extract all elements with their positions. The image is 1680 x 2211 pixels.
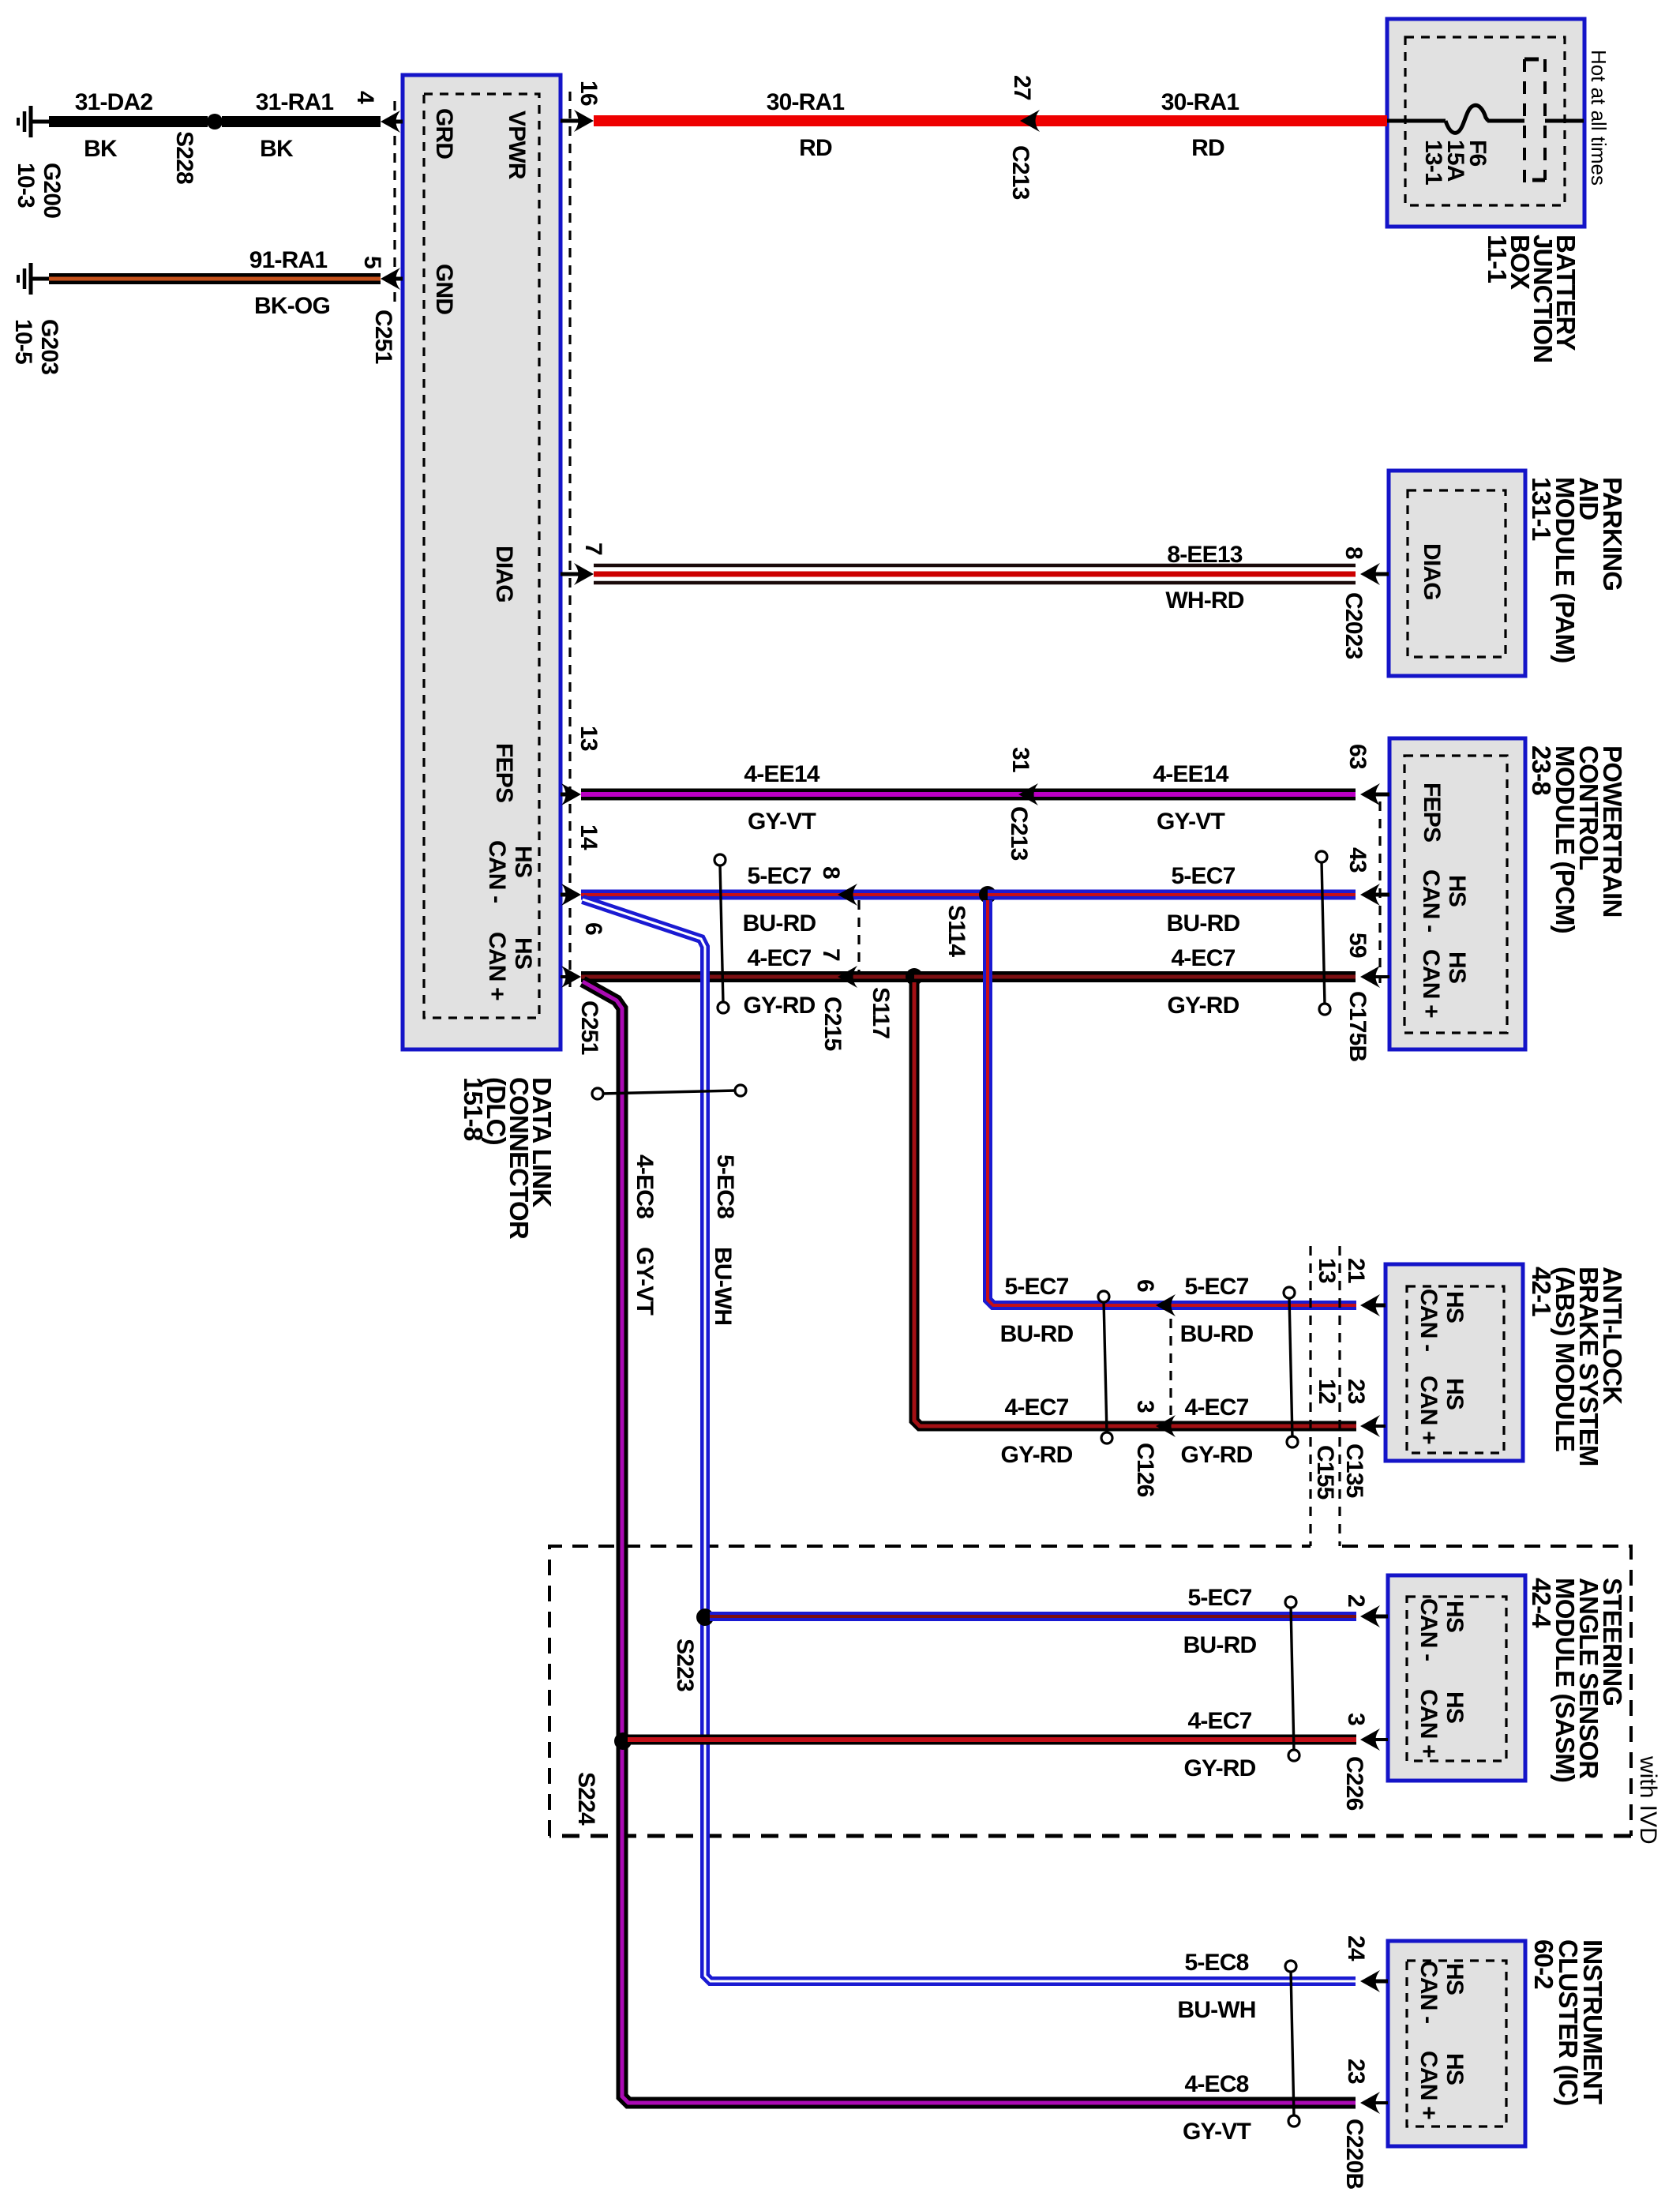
pin 4 arrow at DLC GRD	[381, 111, 403, 133]
svg-text:7: 7	[580, 542, 606, 555]
wire color label BU-WH (vertical)	[710, 1247, 736, 1325]
wire color label BK	[260, 136, 294, 162]
wire color label BU-RD (SASM)	[1183, 1632, 1257, 1658]
connector DLC (Data Link Connector) box	[403, 75, 561, 1049]
DLC HS CAN+ terminal label	[484, 932, 536, 1000]
wire 5-EC7 BU-RD (S223 to SASM pin 2)	[710, 1612, 1356, 1621]
SASM HS CAN+ terminal label	[1416, 1689, 1468, 1758]
wire label 30-RA1	[1161, 89, 1239, 115]
wire label 5-EC8 (IC)	[1184, 1950, 1248, 1976]
svg-text:CAN +: CAN +	[484, 932, 510, 1000]
svg-text:3: 3	[1132, 1400, 1158, 1413]
svg-text:GY-RD: GY-RD	[1167, 993, 1239, 1019]
wire 5-EC7 BU-RD (S114 to PCM pin 43)	[988, 890, 1356, 900]
wire color label BK-OG	[254, 293, 330, 319]
pin 31 label	[1007, 747, 1033, 772]
svg-text:BU-RD: BU-RD	[1167, 910, 1240, 937]
IC HS CAN- terminal label	[1416, 1961, 1468, 2023]
svg-text:BU-RD: BU-RD	[1000, 1321, 1074, 1347]
wire 4-EC7 GY-RD (C215 to splice S117)	[838, 971, 914, 982]
pin 8 arrow at PAM DIAG	[1360, 563, 1389, 585]
wire label 4-EC7	[1171, 945, 1235, 971]
svg-text:GY-RD: GY-RD	[1000, 1442, 1072, 1468]
pin 7 label	[580, 542, 606, 555]
pin 63 label	[1344, 744, 1371, 769]
svg-text:6: 6	[1132, 1279, 1158, 1292]
wire label 4-EC7 (SASM)	[1187, 1708, 1251, 1734]
svg-text:HS: HS	[510, 846, 536, 877]
wire color label GY-RD (left of C126)	[1000, 1442, 1072, 1468]
connector C135 dashed line	[1338, 1246, 1341, 1546]
svg-text:C251: C251	[370, 310, 396, 364]
svg-text:31: 31	[1007, 747, 1033, 772]
svg-text:16: 16	[576, 81, 602, 106]
wire label 4-EC8 (vertical)	[632, 1154, 658, 1218]
wire 8-EE13 WH-RD (DLC pin 7 to PAM pin 8)	[594, 565, 1356, 583]
wire 5-EC7 BU-RD (S114 down and to C126 pin 6)	[988, 900, 1156, 1305]
svg-text:91-RA1: 91-RA1	[249, 247, 328, 273]
pin 24 label	[1343, 1935, 1369, 1961]
svg-text:C226: C226	[1341, 1756, 1367, 1811]
wire color label WH-RD	[1165, 587, 1243, 614]
svg-text:CAN -: CAN -	[1418, 869, 1444, 932]
pin 13 label at C155	[1314, 1258, 1340, 1283]
splice S224 label	[573, 1772, 599, 1826]
DLC VPWR terminal label	[504, 111, 530, 180]
svg-text:C2023: C2023	[1341, 592, 1367, 659]
svg-text:BU-WH: BU-WH	[710, 1247, 736, 1325]
svg-text:C135: C135	[1341, 1443, 1367, 1498]
svg-text:with IVD: with IVD	[1635, 1755, 1661, 1845]
svg-text:5-EC7: 5-EC7	[1184, 1274, 1248, 1300]
connector C155 label	[1312, 1445, 1338, 1500]
svg-text:C175B: C175B	[1344, 991, 1371, 1062]
connector C213 arrow on FEPS wire (pin 31)	[1018, 783, 1038, 805]
svg-text:CAN +: CAN +	[1416, 1376, 1442, 1444]
DLC GND terminal label	[431, 264, 457, 314]
svg-text:GY-VT: GY-VT	[748, 809, 816, 835]
pin 16 label	[576, 81, 602, 106]
svg-text:GY-VT: GY-VT	[632, 1247, 658, 1315]
svg-text:30-RA1: 30-RA1	[767, 89, 845, 115]
module SASM (Steering Angle Sensor Module) box	[1388, 1575, 1525, 1781]
pin 59 arrow at PCM HS CAN+	[1360, 966, 1389, 988]
connector C220B label	[1341, 2119, 1367, 2190]
pin 59 label	[1344, 933, 1371, 958]
pin 6 label	[580, 922, 606, 935]
wire color label BU-RD	[1167, 910, 1240, 937]
connector C126 dashed line	[1169, 1301, 1172, 1431]
svg-text:HS: HS	[510, 937, 536, 969]
connector C175B label	[1344, 991, 1371, 1062]
svg-text:C220B: C220B	[1341, 2119, 1367, 2190]
battery junction box hot-at-all-times label	[1587, 50, 1611, 186]
DLC HS CAN- terminal label	[484, 840, 536, 903]
svg-text:HS: HS	[1442, 2053, 1468, 2085]
svg-text:CAN -: CAN -	[1416, 1961, 1442, 2023]
pin 14 arrow at DLC HS CAN-	[561, 884, 581, 906]
wire color label BU-RD (left of C126)	[1000, 1321, 1074, 1347]
wire label 91-RA1	[249, 247, 328, 273]
svg-text:HS: HS	[1444, 952, 1470, 983]
svg-text:CAN -: CAN -	[484, 840, 510, 903]
pin 8 label at C215	[818, 866, 844, 879]
ground G200 label	[13, 163, 65, 218]
svg-text:Hot at all times: Hot at all times	[1587, 50, 1611, 186]
wire 31-DA2 BK (G200 to splice S228)	[49, 116, 208, 127]
svg-text:BU-RD: BU-RD	[1180, 1321, 1254, 1347]
PAM module name label	[1527, 477, 1627, 663]
connector C126 arrow (pin 6)	[1156, 1294, 1176, 1316]
splice S114	[979, 886, 996, 903]
svg-text:4-EC7: 4-EC7	[1171, 945, 1235, 971]
wire label 5-EC7 (left of C126)	[1004, 1274, 1068, 1300]
connector C215 label	[819, 997, 846, 1051]
splice S117 label	[868, 987, 894, 1038]
wire label 4-EE14	[744, 761, 819, 787]
svg-text:4-EC8: 4-EC8	[1184, 2071, 1248, 2097]
svg-text:GY-VT: GY-VT	[1183, 2119, 1251, 2145]
splice S228	[207, 114, 223, 130]
wire 30-RA1 RD (DLC pin 16 to C213)	[594, 115, 1020, 126]
pin 23 label at C135	[1343, 1379, 1369, 1404]
connector C213 label	[1007, 145, 1033, 200]
svg-text:HS: HS	[1442, 1691, 1468, 1723]
svg-text:S224: S224	[573, 1772, 599, 1826]
PCM FEPS terminal label	[1419, 783, 1445, 842]
splice S224	[614, 1732, 632, 1750]
pin 5 arrow at DLC GND	[381, 268, 403, 290]
wire color label GY-VT (vertical)	[632, 1247, 658, 1315]
svg-text:BK: BK	[84, 136, 118, 162]
pin 2 arrow at SASM HS CAN-	[1360, 1605, 1388, 1627]
wire label 5-EC7 (SASM)	[1187, 1585, 1251, 1611]
ground G203 label	[10, 319, 62, 374]
module ABS (Anti-lock Brake System) box	[1386, 1264, 1523, 1461]
svg-text:C213: C213	[1006, 806, 1032, 861]
svg-text:S223: S223	[672, 1639, 698, 1691]
svg-text:5-EC7: 5-EC7	[1004, 1274, 1068, 1300]
connector C251 label (left)	[370, 310, 396, 364]
pin 63 arrow at PCM FEPS	[1360, 783, 1389, 805]
wire label 5-EC7	[747, 863, 811, 889]
wire color label BU-RD (right of C126)	[1180, 1321, 1254, 1347]
svg-text:VPWR: VPWR	[504, 111, 530, 180]
wire 5-EC8 BU-WH (DLC pin 14 branch down to IC pin 24)	[583, 899, 1356, 1981]
svg-text:4-EC8: 4-EC8	[632, 1154, 658, 1218]
svg-text:S114: S114	[943, 905, 969, 957]
svg-text:HS: HS	[1442, 1291, 1468, 1323]
pin 5 label	[359, 256, 385, 268]
splice S223 label	[672, 1639, 698, 1691]
pin 14 label	[576, 824, 602, 850]
pin 2 label	[1343, 1594, 1369, 1607]
pin 21 label at C135	[1343, 1258, 1369, 1283]
svg-text:4-EE14: 4-EE14	[744, 761, 819, 787]
wire 30-RA1 RD (C213 to battery junction box)	[1020, 115, 1387, 126]
splice S117	[906, 968, 923, 985]
wire label 4-EC7 (right of C126)	[1184, 1395, 1248, 1421]
wire color label GY-VT (IC)	[1183, 2119, 1251, 2145]
svg-text:WH-RD: WH-RD	[1165, 587, 1243, 614]
wire color label GY-VT	[1157, 809, 1224, 835]
svg-text:BK: BK	[260, 136, 294, 162]
wire 91-RA1 BK-OG (G203 to DLC pin 5)	[49, 273, 381, 284]
IC HS CAN+ terminal label	[1416, 2051, 1468, 2119]
svg-text:23: 23	[1343, 2059, 1369, 2084]
svg-text:63: 63	[1344, 744, 1371, 769]
pin 3 label	[1343, 1713, 1369, 1725]
ABS module name label	[1527, 1267, 1627, 1466]
wire label 5-EC7	[1171, 863, 1235, 889]
wire color label RD	[1191, 135, 1224, 161]
twisted pair symbol near DLC (CAN pair)	[714, 854, 729, 1013]
svg-text:7: 7	[818, 948, 844, 961]
wire color label GY-RD	[1167, 993, 1239, 1019]
svg-text:CAN +: CAN +	[1418, 949, 1444, 1018]
wire color label GY-RD (SASM)	[1183, 1755, 1255, 1781]
svg-text:4-EC7: 4-EC7	[1184, 1395, 1248, 1421]
DLC DIAG terminal label	[491, 546, 517, 602]
svg-text:BU-WH: BU-WH	[1177, 1997, 1255, 2023]
svg-text:CAN +: CAN +	[1416, 2051, 1442, 2119]
splice S223	[696, 1609, 714, 1626]
svg-text:HS: HS	[1442, 1601, 1468, 1632]
svg-text:5-EC8: 5-EC8	[712, 1154, 738, 1218]
svg-text:27: 27	[1009, 75, 1035, 100]
svg-text:BU-RD: BU-RD	[743, 910, 816, 937]
twisted pair symbol near PCM (CAN pair)	[1316, 851, 1330, 1015]
wire 4-EC7 GY-RD (S117 down and to C126 pin 3)	[914, 982, 1156, 1426]
ABS HS CAN- terminal label	[1416, 1289, 1468, 1351]
pin 27 label	[1009, 75, 1035, 100]
svg-text:C155: C155	[1312, 1445, 1338, 1500]
svg-text:HS: HS	[1444, 875, 1470, 907]
DLC FEPS terminal label	[491, 743, 517, 802]
svg-text:RD: RD	[799, 135, 832, 161]
svg-text:FEPS: FEPS	[491, 743, 517, 802]
wire 4-EE14 GY-VT (DLC pin 13 to C213 pin 31)	[581, 789, 1018, 801]
connector C126 label	[1132, 1443, 1158, 1497]
module PCM (Powertrain Control Module) box	[1389, 738, 1525, 1049]
twisted pair symbol at SASM	[1285, 1597, 1299, 1761]
svg-text:CAN -: CAN -	[1416, 1289, 1442, 1351]
pin 4 label	[352, 91, 378, 104]
wire label 5-EC7 (right of C126)	[1184, 1274, 1248, 1300]
svg-text:4: 4	[352, 91, 378, 104]
splice S228 label	[171, 131, 197, 184]
svg-text:2: 2	[1343, 1594, 1369, 1607]
svg-text:4-EC7: 4-EC7	[1187, 1708, 1251, 1734]
svg-text:GY-RD: GY-RD	[1183, 1755, 1255, 1781]
wire 5-EC7 BU-RD (DLC pin 14 to C215 pin 8)	[581, 890, 838, 900]
connector C215 arrow (pin 7)	[838, 966, 857, 988]
wire label 5-EC8 (vertical)	[712, 1154, 738, 1218]
svg-text:C215: C215	[819, 997, 846, 1051]
pin 13 arrow at DLC FEPS	[561, 783, 581, 805]
wire 4-EC7 GY-RD (S224 to SASM pin 3)	[628, 1735, 1356, 1745]
svg-text:BU-RD: BU-RD	[1183, 1632, 1257, 1658]
PAM DIAG terminal label	[1419, 543, 1445, 600]
wire color label RD	[799, 135, 832, 161]
svg-text:GY-VT: GY-VT	[1157, 809, 1224, 835]
pin 3 arrow at SASM HS CAN+	[1360, 1729, 1388, 1751]
twisted pair symbol at IC	[1285, 1961, 1299, 2127]
pin 7 arrow at DLC DIAG	[561, 563, 594, 585]
connector C215 arrow (pin 8)	[838, 884, 857, 906]
DLC module name label	[459, 1077, 557, 1240]
pin 23 label	[1343, 2059, 1369, 2084]
wire label 4-EC8 (IC)	[1184, 2071, 1248, 2097]
ground G203	[18, 263, 52, 295]
pin 3 label at C126	[1132, 1400, 1158, 1413]
svg-text:5-EC7: 5-EC7	[1171, 863, 1235, 889]
wire 5-EC7 BU-RD (C126 to ABS pin 21)	[1156, 1301, 1356, 1310]
SASM HS CAN- terminal label	[1416, 1598, 1468, 1661]
svg-text:4-EC7: 4-EC7	[747, 945, 811, 971]
wire label 30-RA1	[767, 89, 845, 115]
wire label 4-EC7 (left of C126)	[1004, 1395, 1068, 1421]
wire color label GY-RD (right of C126)	[1180, 1442, 1252, 1468]
wire color label GY-VT	[748, 809, 816, 835]
wire 4-EE14 GY-VT (C213 to PCM pin 63)	[1018, 789, 1356, 801]
connector C135 label	[1341, 1443, 1367, 1498]
DLC GRD terminal label	[431, 108, 457, 159]
svg-text:5-EC8: 5-EC8	[1184, 1950, 1248, 1976]
svg-text:59: 59	[1344, 933, 1371, 958]
wire color label BU-RD	[743, 910, 816, 937]
svg-text:S117: S117	[868, 987, 894, 1038]
svg-text:GND: GND	[431, 264, 457, 314]
svg-text:3: 3	[1343, 1713, 1369, 1725]
wire 4-EC8 GY-VT (DLC pin 6 branch down to IC pin 23)	[583, 982, 1356, 2103]
svg-text:S228: S228	[171, 131, 197, 184]
wire 4-EC7 GY-RD (DLC pin 6 to C215 pin 7)	[581, 971, 838, 982]
battery junction box	[1387, 19, 1584, 227]
svg-text:6: 6	[580, 922, 606, 935]
pin 24 arrow at IC HS CAN-	[1360, 1970, 1388, 1992]
module IC (Instrument Cluster) box	[1388, 1941, 1525, 2146]
connector C126 arrow (pin 3)	[1156, 1415, 1176, 1437]
svg-text:23: 23	[1343, 1379, 1369, 1404]
svg-text:24: 24	[1343, 1935, 1369, 1961]
battery junction box name label	[1483, 235, 1581, 362]
connector C213 arrow on power wire (pin 27)	[1020, 110, 1040, 132]
svg-text:C251: C251	[576, 1000, 602, 1055]
svg-text:4-EE14: 4-EE14	[1153, 761, 1228, 787]
connector C215 dashed line	[857, 900, 860, 971]
pin 7 label at C215	[818, 948, 844, 961]
pin 6 label at C126	[1132, 1279, 1158, 1292]
wire color label BK	[84, 136, 118, 162]
connector C213 label (FEPS)	[1006, 806, 1032, 861]
wire label 31-RA1	[256, 89, 334, 115]
with IVD label	[1635, 1755, 1661, 1845]
pin 6 arrow at DLC HS CAN+	[561, 966, 581, 988]
svg-text:4-EC7: 4-EC7	[1004, 1395, 1068, 1421]
svg-text:DIAG: DIAG	[491, 546, 517, 602]
pin 43 label	[1344, 847, 1371, 873]
svg-text:30-RA1: 30-RA1	[1161, 89, 1239, 115]
svg-text:DIAG: DIAG	[1419, 543, 1445, 600]
connector C251 dashed line (right, DLC)	[568, 92, 571, 989]
pin 8 label	[1341, 546, 1367, 559]
svg-text:13: 13	[576, 726, 602, 751]
PCM HS CAN- terminal label	[1418, 869, 1470, 932]
twisted pair symbol below DLC (trunk pair)	[592, 1085, 746, 1099]
wire label 8-EE13	[1167, 542, 1242, 568]
pin 23 arrow at ABS HS CAN+	[1360, 1415, 1386, 1437]
wire 5-EC7 BU-RD (C215 to splice S114)	[838, 890, 988, 900]
svg-text:5-EC7: 5-EC7	[1187, 1585, 1251, 1611]
svg-text:C213: C213	[1007, 145, 1033, 200]
svg-text:8-EE13: 8-EE13	[1167, 542, 1242, 568]
connector C175B dashed line	[1378, 801, 1381, 983]
connector C226 label	[1341, 1756, 1367, 1811]
pin 23 arrow at IC HS CAN+	[1360, 2092, 1388, 2114]
pin 21 arrow at ABS HS CAN-	[1360, 1294, 1386, 1316]
svg-text:CAN +: CAN +	[1416, 1689, 1442, 1758]
wire 4-EC7 GY-RD (C126 to ABS pin 23)	[1156, 1421, 1356, 1432]
svg-text:5: 5	[359, 256, 385, 268]
splice S114 label	[943, 905, 969, 957]
fuse F6 15A (battery junction box internal)	[1387, 59, 1584, 186]
wire 4-EC7 GY-RD (S117 to PCM pin 59)	[914, 971, 1356, 982]
svg-text:21: 21	[1343, 1258, 1369, 1283]
ABS HS CAN+ terminal label	[1416, 1376, 1468, 1444]
PCM HS CAN+ terminal label	[1418, 949, 1470, 1018]
svg-text:13: 13	[1314, 1258, 1340, 1283]
pin 16 arrow at DLC VPWR	[561, 110, 594, 132]
svg-text:CAN -: CAN -	[1416, 1598, 1442, 1661]
svg-text:FEPS: FEPS	[1419, 783, 1445, 842]
svg-text:BK-OG: BK-OG	[254, 293, 330, 319]
svg-text:12: 12	[1314, 1379, 1340, 1404]
ground G200	[18, 106, 52, 137]
pin 43 arrow at PCM HS CAN-	[1360, 884, 1389, 906]
wire color label GY-RD	[743, 993, 815, 1019]
IC module name label	[1529, 1939, 1607, 2105]
wire label 31-DA2	[75, 89, 153, 115]
svg-text:31-DA2: 31-DA2	[75, 89, 153, 115]
PCM module name label	[1527, 745, 1627, 933]
connector C155 dashed line	[1309, 1246, 1311, 1546]
wire 31-RA1 BK (S228 to DLC pin 4)	[222, 116, 381, 127]
with IVD option dashed boundary box	[549, 1546, 1631, 1836]
connector C251 dashed line (left, DLC pins 4-5)	[393, 101, 396, 304]
fuse F6 value label	[1420, 140, 1491, 185]
svg-text:5-EC7: 5-EC7	[747, 863, 811, 889]
connector C2023 label	[1341, 592, 1367, 659]
twisted pair symbol right of C126	[1284, 1287, 1298, 1447]
twisted pair symbol left of C126	[1098, 1291, 1112, 1443]
module PAM (Parking Aid Module) box	[1389, 471, 1525, 676]
SASM module name label	[1527, 1578, 1627, 1782]
pin 13 label	[576, 726, 602, 751]
svg-text:GRD: GRD	[431, 108, 457, 159]
wire label 4-EE14	[1153, 761, 1228, 787]
svg-text:HS: HS	[1442, 1963, 1468, 1995]
svg-text:8: 8	[1341, 546, 1367, 559]
svg-text:GY-RD: GY-RD	[743, 993, 815, 1019]
svg-text:8: 8	[818, 866, 844, 879]
svg-text:RD: RD	[1191, 135, 1224, 161]
svg-text:GY-RD: GY-RD	[1180, 1442, 1252, 1468]
svg-text:C126: C126	[1132, 1443, 1158, 1497]
svg-text:43: 43	[1344, 847, 1371, 873]
wire label 4-EC7	[747, 945, 811, 971]
connector C251 label (right)	[576, 1000, 602, 1055]
